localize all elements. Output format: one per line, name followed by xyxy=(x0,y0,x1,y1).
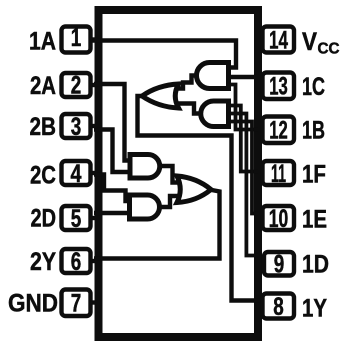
svg-text:1A: 1A xyxy=(29,28,56,56)
svg-text:1D: 1D xyxy=(302,251,329,279)
svg-text:2A: 2A xyxy=(30,72,56,100)
svg-text:5: 5 xyxy=(71,205,82,233)
svg-text:1C: 1C xyxy=(302,73,325,101)
pin stubs left xyxy=(89,40,97,303)
OR gate 2 (points right, output 2Y) xyxy=(177,176,211,203)
svg-text:2D: 2D xyxy=(31,205,57,233)
pin 10 box xyxy=(263,205,295,233)
AND gate 2a (2-input, points right) xyxy=(130,155,160,179)
pin 6 box xyxy=(62,248,91,276)
svg-text:8: 8 xyxy=(273,293,284,321)
pin 1 box xyxy=(62,24,91,53)
svg-text:4: 4 xyxy=(71,160,82,188)
wire AND1b output to OR1 bottom input xyxy=(176,104,203,114)
wire 2D net (pin 5 to AND2b bottom input) xyxy=(94,211,131,215)
pin 3 box xyxy=(62,113,91,141)
wire 1F net (AND1b top input down to pin 11) xyxy=(229,106,259,172)
pin 14 box xyxy=(263,27,295,55)
svg-text:1: 1 xyxy=(71,24,82,52)
wire 1B net (AND1a bottom input down to pin 12) xyxy=(228,85,258,130)
svg-text:V: V xyxy=(302,28,317,56)
wire 2B net (pin 3 to AND2a bottom input) xyxy=(94,130,131,173)
svg-text:2B: 2B xyxy=(30,113,57,141)
pin 2 box xyxy=(62,72,91,100)
pin 9 box xyxy=(264,251,294,279)
AND gate 2b (2-input, points right) xyxy=(130,195,160,219)
svg-text:GND: GND xyxy=(8,290,58,318)
pin 4 box xyxy=(62,160,91,188)
wire 2A net (pin 2 to AND2a top input) xyxy=(94,84,131,161)
wire AND2b output to OR2 bottom input xyxy=(158,196,180,207)
wire 1E net (AND1b bottom input down to pin 10) xyxy=(229,122,259,214)
pin 11 box xyxy=(263,160,295,188)
pin 8 box xyxy=(263,293,295,321)
svg-text:1Y: 1Y xyxy=(302,295,327,323)
svg-text:13: 13 xyxy=(269,73,288,101)
wire 1A net (pin 1 stub and top route to AND gate) xyxy=(90,41,236,68)
pin 12 box xyxy=(263,117,295,145)
svg-text:1B: 1B xyxy=(302,117,325,145)
wire 1C net (pin 13 to AND1a middle input) xyxy=(228,75,258,79)
svg-text:2: 2 xyxy=(71,72,82,100)
IC body U1 (DIP-14 outline) xyxy=(99,10,259,337)
svg-text:1F: 1F xyxy=(302,161,326,189)
wire 2C net (pin 4 to AND2b top input) xyxy=(94,175,131,202)
wire AND2a output to OR2 top input xyxy=(158,166,180,183)
svg-text:1E: 1E xyxy=(302,206,327,234)
svg-text:6: 6 xyxy=(71,248,82,276)
wire 1Y net (OR1 output routed down and right to pin 8) xyxy=(138,96,263,301)
svg-text:3: 3 xyxy=(71,113,82,141)
wire AND1a output to OR1 top input xyxy=(176,76,200,89)
svg-text:2Y: 2Y xyxy=(30,248,56,276)
pin 7 box xyxy=(62,290,91,318)
svg-text:9: 9 xyxy=(274,251,285,279)
pin 5 box xyxy=(62,205,91,233)
svg-text:2C: 2C xyxy=(30,162,56,190)
pin 13 box xyxy=(263,73,295,101)
AND gate 1a (3-input, points left) xyxy=(197,63,229,89)
AND gate 1b (3-input, points left) xyxy=(201,101,229,127)
OR gate 1 (points left, output 1Y) xyxy=(142,84,179,108)
svg-text:14: 14 xyxy=(269,27,288,55)
svg-text:12: 12 xyxy=(269,117,288,145)
wire 1D net (AND1b middle input down to pin 9) xyxy=(229,114,259,256)
svg-text:10: 10 xyxy=(269,205,289,233)
svg-text:7: 7 xyxy=(71,290,82,318)
wire 2Y net (OR2 output down and left to pin 6) xyxy=(94,190,220,259)
svg-text:CC: CC xyxy=(318,41,340,58)
label VCC xyxy=(302,28,340,58)
svg-text:11: 11 xyxy=(271,160,286,188)
